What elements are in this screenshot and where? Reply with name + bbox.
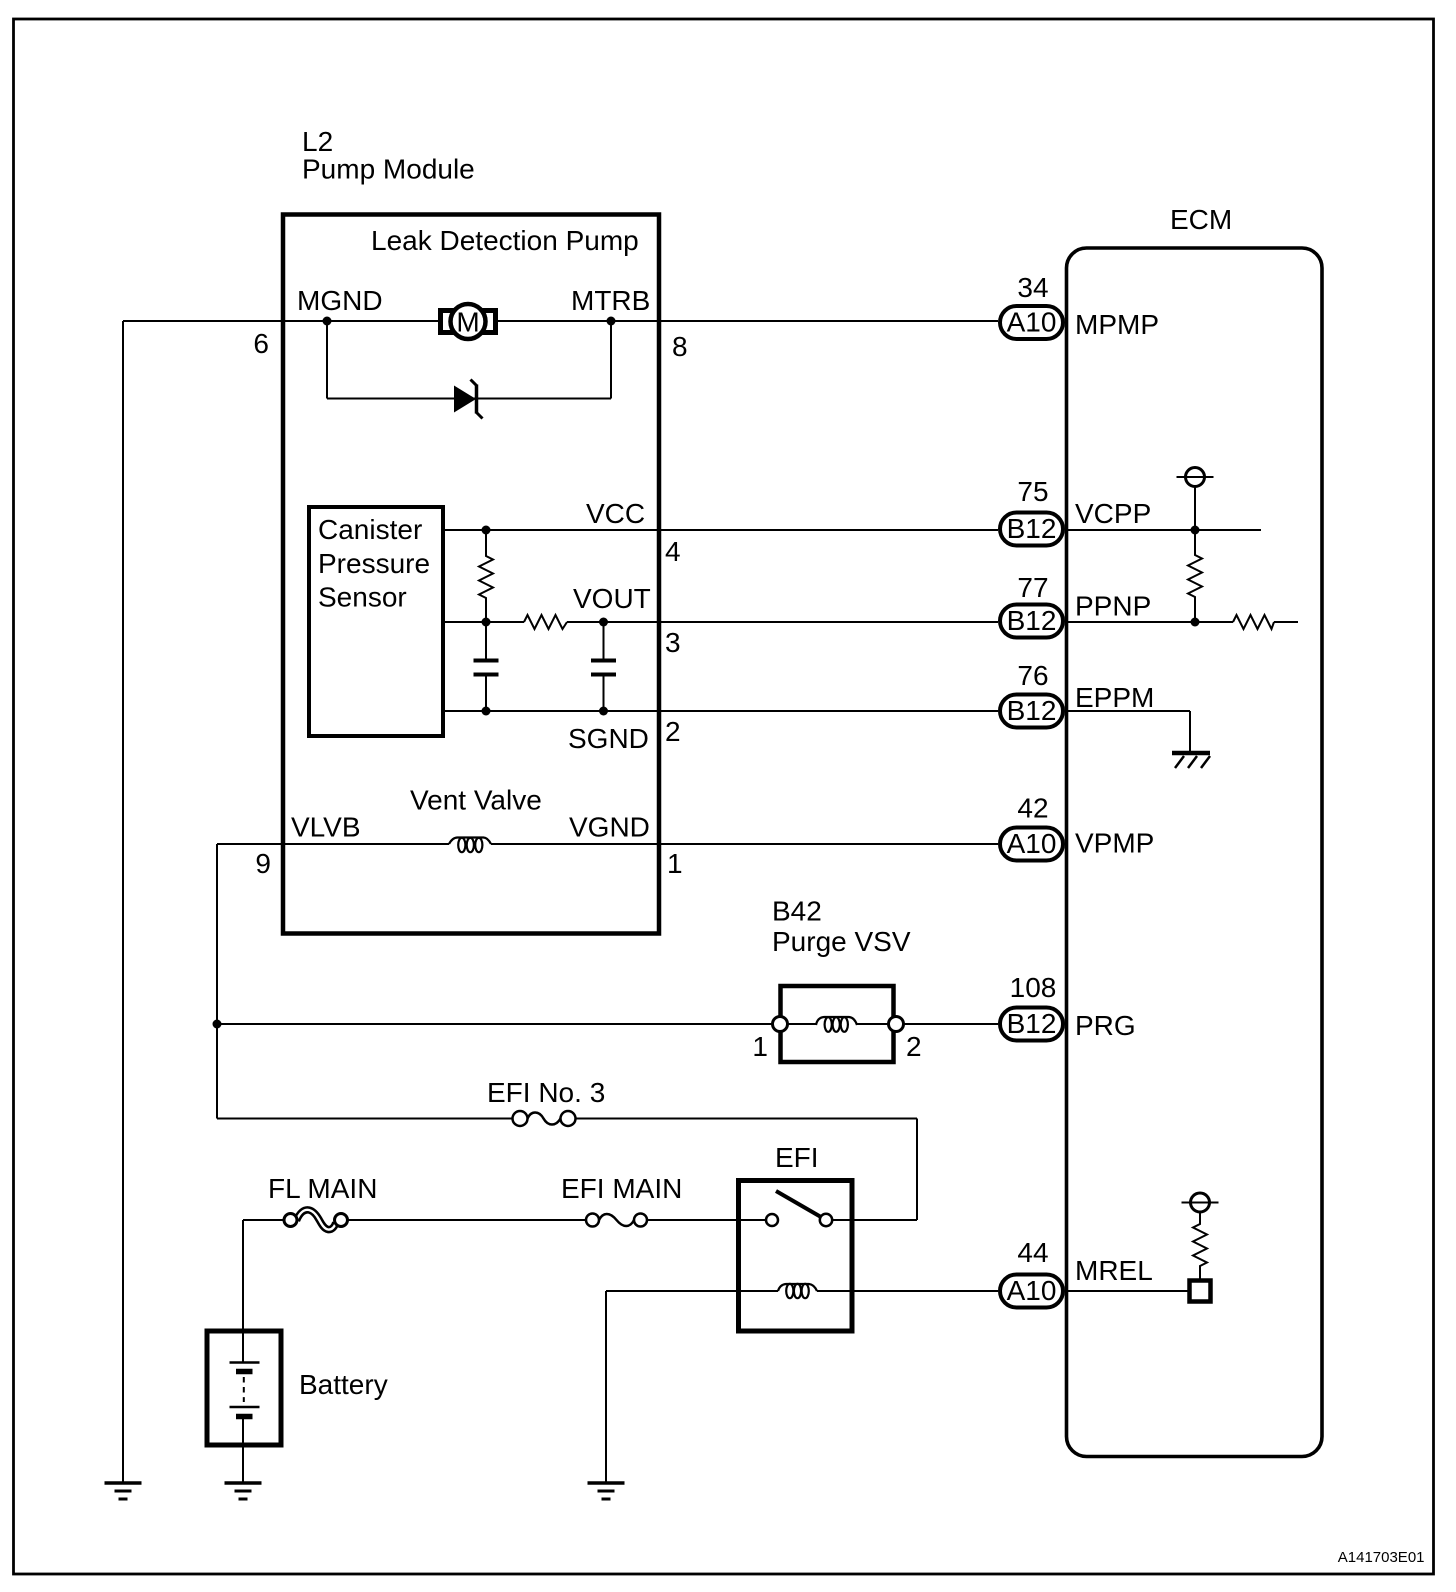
wire VCPP internal	[1065, 529, 1261, 531]
wire MGND to left ground rail	[122, 321, 124, 1482]
motor M1 pump motor	[441, 304, 496, 339]
wire relay coil ground drop	[605, 1291, 607, 1482]
svg-text:VCPP: VCPP	[1075, 498, 1151, 529]
relay EFI switch contact	[766, 1191, 832, 1226]
connector pin 108 B12 PRG	[1000, 972, 1063, 1041]
canister pressure sensor box	[309, 507, 443, 736]
connector pin 34 A10 MPMP	[1000, 272, 1063, 339]
connector pin 76 B12 EPPM	[1000, 660, 1063, 728]
resistor R1 sensor pull-up vertical	[479, 530, 493, 622]
terminal 2 purge VSV	[889, 1017, 904, 1032]
node PPNP junction	[1191, 618, 1200, 627]
svg-text:77: 77	[1017, 572, 1048, 603]
svg-text:A141703E01: A141703E01	[1338, 1549, 1425, 1566]
purge VSV B42 box	[781, 986, 894, 1062]
svg-text:42: 42	[1017, 793, 1048, 824]
label Canister Pressure Sensor	[318, 514, 430, 613]
battery box	[207, 1331, 281, 1445]
wire VOUT (net PPNP)	[443, 621, 998, 623]
svg-text:EFI No. 3: EFI No. 3	[487, 1077, 605, 1108]
node VCC junction	[482, 526, 491, 535]
wire PRG (net PRG)	[217, 1023, 998, 1025]
connector pin 77 B12 PPNP	[1000, 572, 1063, 638]
fusible link FL MAIN	[284, 1210, 348, 1230]
svg-text:L2: L2	[302, 126, 333, 157]
svg-text:MREL: MREL	[1075, 1255, 1153, 1286]
wire MREL internal	[1065, 1290, 1188, 1292]
terminal 1 purge VSV	[773, 1017, 788, 1032]
svg-text:2: 2	[665, 716, 681, 747]
svg-text:Pump Module: Pump Module	[302, 154, 475, 185]
svg-text:44: 44	[1017, 1237, 1048, 1268]
svg-text:1: 1	[667, 848, 683, 879]
svg-text:6: 6	[253, 328, 269, 359]
svg-text:75: 75	[1017, 476, 1048, 507]
svg-text:MPMP: MPMP	[1075, 309, 1159, 340]
capacitor C2	[591, 622, 616, 711]
wire battery drop	[242, 1220, 244, 1362]
svg-text:PRG: PRG	[1075, 1010, 1136, 1041]
svg-text:1: 1	[752, 1031, 768, 1062]
node MGND junction	[323, 317, 332, 326]
svg-text:Pressure: Pressure	[318, 548, 430, 579]
ignition switch contact square MREL	[1190, 1281, 1211, 1302]
ECM box	[1067, 248, 1323, 1457]
svg-text:76: 76	[1017, 660, 1048, 691]
node MTRB junction	[607, 317, 616, 326]
power source symbol B+ VCPP	[1177, 468, 1214, 531]
svg-text:Sensor: Sensor	[318, 582, 407, 613]
wire MGND-MTRB-MPMP (net MPMP)	[123, 320, 998, 322]
svg-text:B42: B42	[772, 896, 822, 927]
svg-text:A10: A10	[1007, 1275, 1057, 1306]
svg-text:A10: A10	[1007, 307, 1057, 338]
resistor R4 ECM series	[1233, 615, 1274, 629]
inductor L-vent vent valve coil	[449, 838, 491, 853]
svg-text:VCC: VCC	[586, 498, 645, 529]
wire EPPM internal	[1065, 711, 1190, 751]
svg-text:M: M	[456, 307, 479, 338]
svg-text:EPPM: EPPM	[1075, 682, 1154, 713]
wire PPNP internal	[1065, 621, 1298, 623]
svg-text:MGND: MGND	[297, 285, 383, 316]
label Leak Detection Pump	[371, 225, 639, 256]
inductor L-vsv purge VSV coil	[816, 1017, 857, 1032]
svg-text:Leak Detection Pump: Leak Detection Pump	[371, 225, 639, 256]
node SGND junction left	[482, 707, 491, 716]
svg-text:FL MAIN: FL MAIN	[268, 1173, 377, 1204]
svg-text:B12: B12	[1007, 513, 1057, 544]
resistor R2 output series horizontal	[524, 615, 567, 629]
svg-text:Purge VSV: Purge VSV	[772, 926, 911, 957]
svg-text:VPMP: VPMP	[1075, 828, 1154, 859]
svg-text:VGND: VGND	[569, 812, 650, 843]
label B42 / Purge VSV	[772, 896, 911, 958]
wire VCC (net VCPP)	[443, 529, 998, 531]
pump module box L2	[283, 215, 659, 934]
connector pin 44 A10 MREL	[1000, 1237, 1063, 1308]
svg-text:VOUT: VOUT	[573, 583, 651, 614]
svg-text:3: 3	[665, 627, 681, 658]
node VCPP junction	[1191, 526, 1200, 535]
relay EFI box	[739, 1181, 853, 1332]
resistor R5 MREL pull-up	[1193, 1212, 1207, 1279]
capacitor C1	[474, 622, 499, 711]
svg-text:SGND: SGND	[568, 723, 649, 754]
ground relay coil	[588, 1483, 625, 1499]
wire diode bypass branch	[327, 321, 611, 399]
wire EFI No.3 branch	[217, 1119, 917, 1221]
zener diode D1 across motor	[454, 380, 483, 419]
svg-text:A10: A10	[1007, 828, 1057, 859]
wire SGND (net EPPM)	[443, 710, 998, 712]
svg-text:2: 2	[906, 1031, 922, 1062]
svg-text:B12: B12	[1007, 695, 1057, 726]
svg-text:Canister: Canister	[318, 514, 422, 545]
chassis ground EPPM	[1172, 753, 1210, 768]
svg-text:EFI: EFI	[775, 1142, 819, 1173]
svg-text:Vent Valve: Vent Valve	[410, 785, 542, 816]
fuse EFI No.3	[513, 1111, 576, 1126]
svg-text:108: 108	[1010, 972, 1057, 1003]
wire relay coil row (net MREL)	[606, 1290, 998, 1292]
wire relay switch to EFI No.3 riser	[833, 1219, 918, 1221]
connector pin 42 A10 VPMP	[1000, 793, 1063, 861]
resistor R3 ECM pull-up	[1188, 530, 1202, 622]
wire VGND (net VPMP)	[217, 843, 998, 845]
node SGND junction right	[599, 707, 608, 716]
svg-text:B12: B12	[1007, 1008, 1057, 1039]
svg-text:34: 34	[1017, 272, 1048, 303]
wire VLVB vertical feed	[216, 844, 218, 1119]
svg-text:VLVB: VLVB	[291, 812, 361, 843]
svg-text:4: 4	[665, 536, 681, 567]
relay EFI coil	[778, 1284, 817, 1298]
power source symbol B+ MREL	[1182, 1193, 1219, 1212]
label L2 / Pump Module	[302, 126, 475, 185]
fuse EFI MAIN	[586, 1214, 647, 1227]
svg-text:EFI MAIN: EFI MAIN	[561, 1173, 682, 1204]
node VOUT junction left	[482, 618, 491, 627]
svg-text:8: 8	[672, 331, 688, 362]
ground left rail	[105, 1483, 142, 1499]
svg-text:PPNP: PPNP	[1075, 591, 1151, 622]
svg-text:MTRB: MTRB	[571, 285, 650, 316]
wire battery feed row	[243, 1219, 766, 1221]
node PRG tap junction	[213, 1020, 222, 1029]
connector pin 75 B12 VCPP	[1000, 476, 1063, 546]
svg-text:B12: B12	[1007, 605, 1057, 636]
node VOUT junction right	[599, 618, 608, 627]
svg-text:ECM: ECM	[1170, 204, 1232, 235]
svg-text:9: 9	[255, 848, 271, 879]
ground battery	[225, 1483, 262, 1499]
svg-text:Battery: Battery	[299, 1369, 388, 1400]
battery B1 cells	[230, 1363, 260, 1483]
